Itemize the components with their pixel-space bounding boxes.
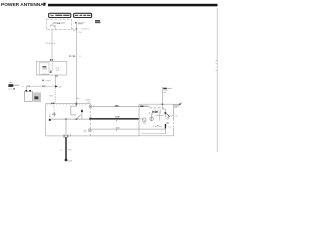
svg-text:C29: C29 (58, 87, 61, 89)
svg-text:POWER ANTENNA: POWER ANTENNA (1, 2, 44, 8)
svg-text:SHLD: SHLD (49, 96, 54, 98)
svg-text:2: 2 (54, 60, 55, 62)
svg-text:3: 3 (88, 29, 89, 31)
svg-text:5 WHT: 5 WHT (45, 80, 52, 82)
svg-text:10: 10 (60, 150, 62, 152)
svg-text:G401: G401 (68, 160, 73, 162)
svg-text:C100: C100 (78, 32, 82, 34)
svg-text:14 ORG: 14 ORG (46, 43, 53, 45)
